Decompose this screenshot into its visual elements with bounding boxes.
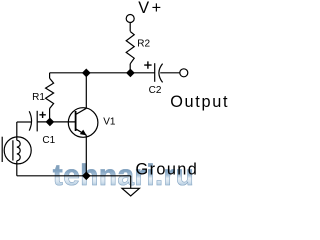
transistor V1 base bar <box>75 111 77 131</box>
wire R1 bottom lead <box>49 109 51 122</box>
capacitor C2 plus sign <box>144 61 151 68</box>
transistor V1 body <box>68 108 98 138</box>
microphone coil <box>17 140 20 160</box>
capacitor C1 left curved plate <box>29 111 31 130</box>
wire R1 top lead <box>49 73 51 79</box>
resistor R2 <box>126 32 134 64</box>
wire bottom rail <box>17 175 131 177</box>
node junction R1/C1/base <box>46 118 53 125</box>
capacitor C1 plus sign <box>39 112 45 118</box>
resistor R1 <box>46 78 54 108</box>
microphone body <box>4 137 31 164</box>
transistor V1 emitter arrow <box>80 130 87 136</box>
microphone sound line <box>1 137 3 162</box>
ground symbol <box>122 188 139 196</box>
node junction A: R2/rail/C2 <box>127 69 134 76</box>
terminal V+ <box>126 15 134 23</box>
svg-text:V1: V1 <box>103 117 116 128</box>
wire mic top lead <box>16 122 18 140</box>
svg-text:R1: R1 <box>32 92 45 103</box>
transistor V1 collector diagonal <box>76 108 87 114</box>
wire node A to C2 <box>130 72 154 74</box>
transistor V1 emitter diagonal <box>76 129 87 135</box>
svg-text:C1: C1 <box>42 135 55 146</box>
svg-text:V+: V+ <box>138 0 164 17</box>
svg-text:Output: Output <box>170 93 229 111</box>
wire ground drop <box>130 176 132 189</box>
watermark tehnari.ru <box>53 161 194 191</box>
capacitor C2 left plate <box>154 63 156 82</box>
wire collector lead <box>85 73 87 109</box>
wire mic to C1 <box>17 121 32 123</box>
svg-text:Ground: Ground <box>136 161 199 179</box>
terminal output <box>180 69 188 77</box>
microphone diaphragm line <box>12 140 14 160</box>
wire V+ terminal to R2 <box>129 23 131 32</box>
wire top rail <box>50 72 131 74</box>
capacitor C2 right curved plate <box>159 64 163 83</box>
wire emitter lead <box>85 135 87 176</box>
wire C2 to output terminal <box>160 72 180 74</box>
svg-text:C2: C2 <box>149 85 162 96</box>
wire mic bottom lead <box>16 161 18 176</box>
svg-text:R2: R2 <box>137 39 150 50</box>
wire R2 to node A <box>129 64 131 73</box>
node junction collector/top rail <box>83 69 90 76</box>
capacitor C1 right plate <box>36 111 38 132</box>
wire base <box>37 121 75 123</box>
node junction emitter/ground rail <box>83 172 90 179</box>
